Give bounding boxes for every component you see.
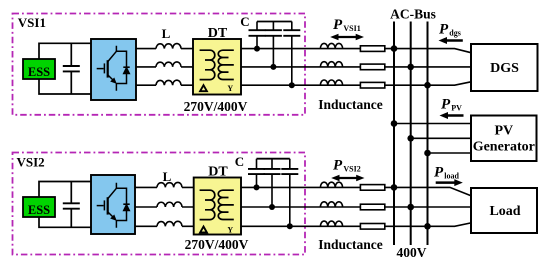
VSI1 dashed boundary box <box>13 14 306 115</box>
label P_VSI1 <box>333 17 361 33</box>
wire phase lines VSI2 (3) <box>135 187 194 226</box>
svg-text:C: C <box>240 14 249 29</box>
inductor Inductance VSI1 (3 coils) <box>320 43 342 85</box>
capacitor C2a <box>248 159 265 188</box>
svg-text:load: load <box>444 171 459 180</box>
svg-text:dgs: dgs <box>449 28 461 37</box>
label 270V/400V VSI2 <box>185 237 249 252</box>
label 400V <box>397 245 427 260</box>
transformer DT1 box <box>193 39 241 95</box>
svg-text:VSI2: VSI2 <box>343 164 360 173</box>
capacitor bank C VSI2 top bus <box>257 158 290 160</box>
svg-text:Load: Load <box>489 204 520 219</box>
label P_dgs <box>439 22 461 38</box>
wire phase lines VSI2 to bus <box>241 187 471 226</box>
svg-text:P: P <box>333 17 343 33</box>
inductor L VSI2 (3 coils) <box>157 182 182 226</box>
arrow P_PV left <box>440 112 464 119</box>
transformer DT2 box <box>194 178 241 235</box>
resistor R2c <box>360 224 384 230</box>
node dots bus VSI1 <box>391 45 431 88</box>
transformer DT2 secondary winding <box>218 190 234 219</box>
label Inductance VSI1 <box>318 97 383 112</box>
label P_VSI2 <box>333 158 361 174</box>
capacitor C2c <box>281 159 298 227</box>
svg-text:VSI1: VSI1 <box>18 15 46 30</box>
svg-text:C: C <box>235 154 244 169</box>
label VSI2 <box>17 155 45 170</box>
label DT2 <box>208 165 228 180</box>
label C VSI2 <box>235 154 244 169</box>
label L VSI1 <box>162 26 171 41</box>
bus line 2 <box>410 22 412 246</box>
arrow P_load right <box>436 179 463 186</box>
wire phase lines VSI1 to bus <box>241 49 471 86</box>
label 270V/400V VSI1 <box>184 99 248 114</box>
resistor R1c <box>360 82 384 88</box>
svg-text:DT: DT <box>208 165 228 180</box>
svg-text:VSI2: VSI2 <box>17 155 45 170</box>
capacitor C1a <box>249 22 266 49</box>
svg-text:400V: 400V <box>397 245 427 260</box>
node dots capacitor bank VSI2 <box>254 184 293 229</box>
resistor R2a <box>360 185 384 191</box>
svg-text:P: P <box>439 22 449 38</box>
svg-text:270V/400V: 270V/400V <box>185 237 249 252</box>
svg-text:Inductance: Inductance <box>318 237 383 252</box>
label Inductance VSI2 <box>318 237 383 252</box>
arrow P_VSI1 double-headed <box>330 34 364 41</box>
svg-text:L: L <box>163 169 172 184</box>
inductor Inductance VSI2 (3 coils) <box>320 182 342 226</box>
svg-text:ESS: ESS <box>28 65 50 79</box>
svg-text:Inductance: Inductance <box>318 97 383 112</box>
arrow P_VSI2 double-headed <box>331 175 364 182</box>
svg-text:P: P <box>333 158 343 174</box>
label P_PV <box>441 97 462 113</box>
capacitor DC-link C-V1 <box>63 43 80 94</box>
ESS E2 <box>23 197 55 217</box>
DGS box <box>471 44 538 91</box>
node dots bus PV <box>391 120 431 156</box>
resistor R1b <box>360 64 384 70</box>
svg-text:Y: Y <box>227 84 233 93</box>
capacitor C1b <box>265 22 282 67</box>
transformer DT1 wye symbol <box>227 84 233 93</box>
VSI2 dashed boundary box <box>13 153 306 255</box>
capacitor DC-link C-V2 <box>63 182 80 228</box>
svg-text:L: L <box>162 26 171 41</box>
transformer DT2 wye symbol <box>227 225 233 234</box>
PV Generator box <box>471 116 537 162</box>
svg-text:DGS: DGS <box>490 61 519 76</box>
svg-text:PV: PV <box>494 124 513 139</box>
bus line 1 <box>393 22 395 246</box>
wire phase lines VSI1 (3) <box>136 49 193 86</box>
label DT1 <box>208 26 228 41</box>
transformer DT1 secondary winding <box>218 50 234 79</box>
transformer DT2 delta symbol <box>200 227 207 233</box>
label VSI1 <box>18 15 46 30</box>
capacitor C2b <box>264 159 281 207</box>
Load box <box>471 188 537 233</box>
arrow P_dgs left <box>439 37 463 44</box>
transformer DT2 primary winding <box>200 190 215 219</box>
wire DC loop VSI2 <box>39 182 91 228</box>
resistor R1a <box>360 46 384 52</box>
label AC-Bus <box>390 7 436 22</box>
wire DC loop VSI1 <box>39 43 91 94</box>
transformer DT1 primary winding <box>200 50 215 79</box>
svg-text:ESS: ESS <box>28 203 50 217</box>
svg-text:P: P <box>441 97 451 113</box>
node dots bus VSI2 <box>391 184 431 230</box>
label L VSI2 <box>163 169 172 184</box>
svg-text:VSI1: VSI1 <box>343 24 360 33</box>
svg-text:DT: DT <box>208 26 228 41</box>
wire PV pins <box>394 124 471 154</box>
svg-text:Y: Y <box>227 225 233 234</box>
transistor IGBT icon U1 <box>97 46 130 91</box>
ESS E1 <box>23 59 55 79</box>
capacitor C1c <box>283 22 300 86</box>
inverter U2 (blue box) <box>91 175 135 234</box>
bus line 3 <box>427 22 429 246</box>
resistor R2b <box>360 204 384 210</box>
transistor IGBT icon U2 <box>97 183 130 228</box>
node dots capacitor bank VSI1 <box>254 46 295 89</box>
svg-text:PV: PV <box>451 103 462 112</box>
transformer DT1 delta symbol <box>200 85 207 91</box>
svg-text:P: P <box>434 165 444 181</box>
label C VSI1 <box>240 14 249 29</box>
svg-text:Generator: Generator <box>473 140 535 155</box>
svg-text:AC-Bus: AC-Bus <box>390 7 436 22</box>
inverter U1 (blue box) <box>91 39 136 100</box>
capacitor bank C VSI1 top bus <box>257 21 292 23</box>
label P_load <box>434 165 460 181</box>
svg-text:270V/400V: 270V/400V <box>184 99 248 114</box>
inductor L VSI1 (3 coils) <box>156 44 181 86</box>
